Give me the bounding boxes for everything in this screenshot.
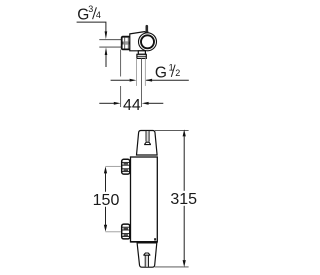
- top handle (temperature): [137, 131, 158, 156]
- body bottom edge thick: [131, 241, 158, 243]
- svg-text:2: 2: [175, 68, 180, 78]
- outlet pipe centerline / extension: [141, 58, 143, 107]
- body (front view): [131, 157, 158, 242]
- drain mark bottom right of body: [154, 238, 156, 240]
- dimension 44: [99, 97, 163, 114]
- svg-text:315: 315: [170, 191, 197, 208]
- svg-text:44: 44: [123, 97, 141, 114]
- wall extension line: [120, 50, 122, 77]
- union nut (top view): [122, 37, 131, 50]
- svg-text:3: 3: [88, 4, 93, 14]
- cartridge circle (top view): [139, 33, 157, 51]
- svg-text:G: G: [155, 64, 167, 81]
- top handle grip groove: [145, 131, 151, 145]
- label G 1/2: [155, 62, 180, 81]
- supply pipe G 3/4 (top view): [99, 39, 121, 41]
- bottom handle grip groove: [144, 253, 150, 267]
- bottom inlet nut (front view): [122, 224, 130, 239]
- temperature pin stub on top: [145, 25, 149, 34]
- label G 3/4: [77, 4, 101, 24]
- outlet pipe down (G 1/2): [136, 58, 138, 86]
- leader line G 3/4: [77, 22, 106, 31]
- valve body (top view): [130, 32, 152, 51]
- bottom handle (volume): [137, 243, 157, 267]
- G 1/2 dimension arrows: [111, 79, 130, 81]
- svg-text:150: 150: [93, 192, 120, 209]
- arrow down to pipe top: [105, 31, 108, 39]
- dimension 150: [93, 166, 121, 231]
- dimension 315: [155, 129, 198, 267]
- outlet stack below body: [138, 51, 145, 55]
- svg-text:4: 4: [96, 10, 101, 20]
- top inlet nut (front view): [122, 159, 130, 174]
- arrow up to pipe bottom: [105, 55, 107, 68]
